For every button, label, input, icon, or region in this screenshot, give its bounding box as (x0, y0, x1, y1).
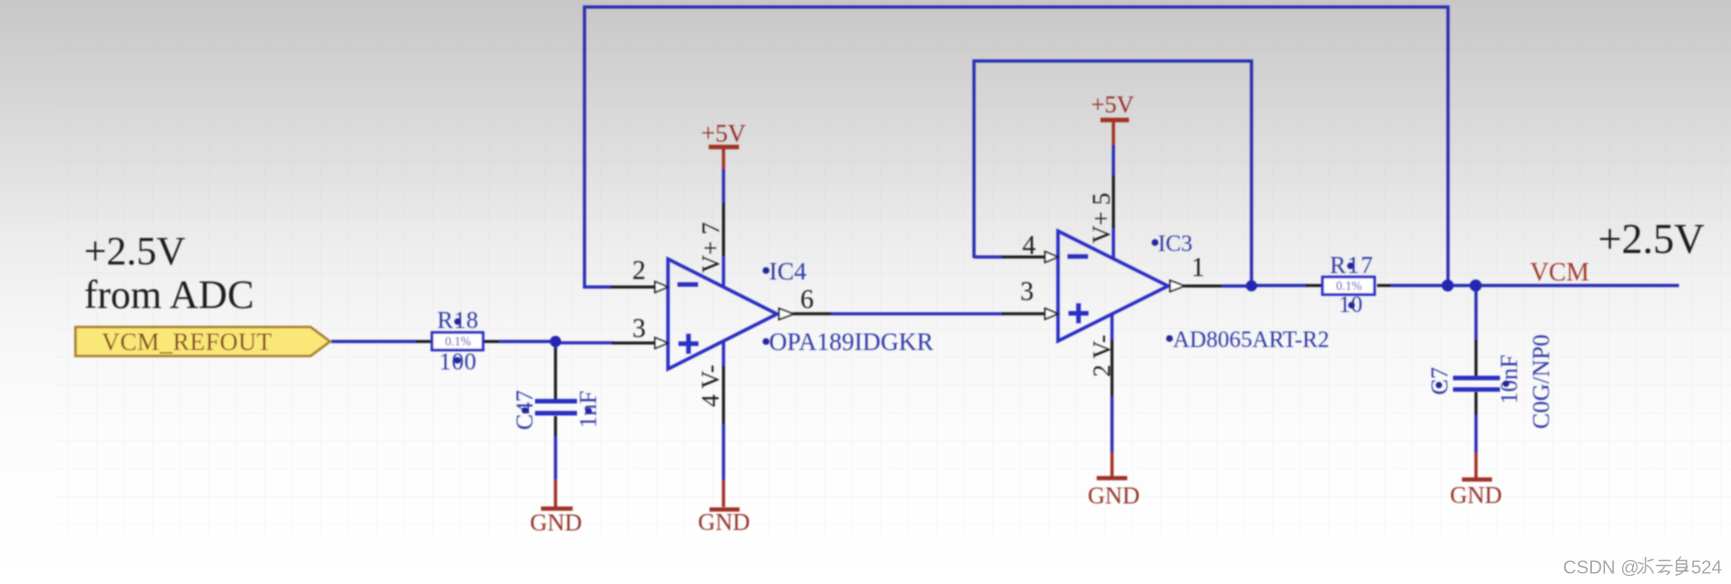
net label flag VCM_REFOUT (76, 327, 331, 356)
IC4 V- pin stem (722, 342, 725, 508)
wire C7 to GND (1474, 415, 1477, 454)
IC4 designator label (763, 267, 770, 274)
wire C47 to GND (554, 436, 557, 481)
IC3 pin 3 input arrow (1045, 308, 1058, 319)
svg-text:2: 2 (632, 255, 646, 285)
svg-text:0.1%: 0.1% (445, 335, 471, 349)
op-amp U1 IC4 triangle body (668, 259, 777, 369)
pin of C47 bottom (black) (554, 416, 557, 438)
svg-text:6: 6 (800, 284, 814, 314)
wire loop1 to IC4 pin 2 (583, 285, 613, 288)
IC4 plus input mark (679, 334, 699, 354)
svg-text:VCM: VCM (1530, 258, 1589, 287)
svg-text:1: 1 (1191, 252, 1205, 282)
IC3 pin 1 output arrow (1170, 281, 1185, 292)
junction D (C7 / VCM net) (1470, 280, 1482, 292)
IC3 designator label (1152, 239, 1159, 246)
svg-text:V+ 5: V+ 5 (1089, 193, 1116, 244)
IC3 plus input mark (1069, 303, 1089, 323)
svg-text:V+ 7: V+ 7 (698, 222, 725, 273)
+5V power port of IC3 (1091, 93, 1135, 121)
pin 3 of IC4 (black pin wire) (612, 342, 655, 345)
IC4 minus input mark (678, 282, 699, 287)
IC3 minus input mark (1068, 254, 1089, 259)
ground GND of C47 (530, 509, 582, 537)
pin of C47 top (black) (554, 348, 557, 399)
svg-text:+2.5V: +2.5V (1598, 217, 1705, 263)
+5V power port of IC4 (701, 121, 746, 148)
IC4 pin 2 input arrow (655, 282, 668, 293)
wire feedback loop IC4 output net to R17/junction (top outer loop) (585, 7, 1449, 288)
wire R17 to VCM output (net VCM) (1391, 284, 1679, 287)
pin 1 output of IC3 (black pin wire) (1184, 285, 1224, 288)
pin 4 of IC3 (black pin wire) (1002, 256, 1045, 259)
svg-text:IC3: IC3 (1158, 231, 1193, 256)
wire junction A down to C47 (554, 340, 557, 350)
wire R18 to junction A (499, 340, 557, 343)
svg-text:VCM_REFOUT: VCM_REFOUT (102, 329, 273, 356)
svg-text:4: 4 (1022, 230, 1036, 260)
svg-text:524: 524 (1691, 557, 1722, 578)
capacitor C7 plates (1453, 378, 1500, 390)
wire C7 GND stem (red) (1474, 453, 1477, 479)
wire R17 left pin stub (black) (1306, 284, 1322, 287)
svg-text:CSDN @: CSDN @ (1563, 557, 1639, 578)
svg-text:2 V-: 2 V- (1089, 335, 1116, 377)
svg-text:C0G/NP0: C0G/NP0 (1529, 334, 1555, 429)
watermark CSDN (1563, 557, 1722, 578)
svg-text:AD8065ART-R2: AD8065ART-R2 (1173, 327, 1329, 352)
ground GND of IC3 (1088, 478, 1140, 509)
svg-text:GND: GND (1450, 483, 1502, 509)
ground GND of IC4 (698, 510, 750, 537)
wire IC3 output to junction B (1222, 284, 1253, 287)
junction B (IC3 out / loop2) (1246, 280, 1257, 291)
wire junction A to IC4 pin 3 (556, 341, 614, 344)
IC3 V- pin stem (1110, 315, 1113, 478)
junction C (loop1 / VCM net) (1442, 280, 1454, 292)
wire R17 right pin stub (black) (1377, 284, 1393, 287)
pin of C7 bottom (black) (1475, 392, 1478, 417)
wire VCM_REFOUT flag to R18 left pin (331, 340, 418, 343)
svg-text:4 V-: 4 V- (698, 365, 725, 407)
resistor R18 body (432, 333, 483, 351)
wire loop2 to IC3 pin 4 (974, 255, 1004, 258)
resistor R17 body (1323, 277, 1375, 295)
svg-text:+5V: +5V (701, 121, 746, 148)
IC4 part number label OPA189IDGKR (763, 338, 770, 345)
svg-text:GND: GND (530, 511, 582, 537)
IC4 V+ pin stem: red/blue/black/blue from +5V bar to triangle (722, 147, 725, 287)
svg-text:GND: GND (698, 510, 750, 536)
IC3 pin 4 input arrow (1045, 252, 1058, 263)
svg-text:+2.5V: +2.5V (84, 229, 186, 274)
pin 6 output of IC4 (black pin wire) (793, 312, 833, 315)
capacitor C3 C47 plates (535, 401, 577, 413)
wire junction B to R17 (1250, 284, 1308, 287)
pin 3 of IC3 (black pin wire) (1002, 312, 1045, 315)
svg-text:GND: GND (1088, 484, 1140, 510)
IC3 part number label AD8065ART-R2 (1166, 335, 1173, 342)
svg-text:+5V: +5V (1091, 93, 1135, 119)
svg-text:C7: C7 (1428, 367, 1454, 395)
svg-text:10nF: 10nF (1497, 355, 1523, 404)
wire feedback loop IC3 output to pin 4 (inner loop) (974, 61, 1252, 286)
IC4 pin 6 output arrow (779, 309, 794, 320)
svg-text:from ADC: from ADC (84, 272, 254, 317)
svg-text:IC4: IC4 (769, 259, 807, 286)
junction A (R18 / C47 / IC4 pin3) (550, 336, 561, 347)
svg-text:3: 3 (1020, 276, 1034, 306)
wire C47 GND stem (red) (554, 480, 557, 508)
svg-text:0.1%: 0.1% (1336, 279, 1362, 293)
op-amp U2 IC3 triangle body (1058, 231, 1168, 341)
ground GND of C7 (1450, 480, 1502, 510)
wire R18 right pin stub (black) (484, 340, 500, 343)
pin 2 of IC4 (black pin wire) (611, 286, 655, 289)
wire R18 left pin stub (black) (416, 340, 432, 343)
IC4 pin 3 input arrow (655, 338, 668, 349)
wire junction D down to C7 (1474, 284, 1477, 342)
svg-text:OPA189IDGKR: OPA189IDGKR (769, 329, 934, 356)
IC3 V+ pin stem (1112, 121, 1115, 259)
pin of C7 top (black) (1475, 340, 1478, 376)
svg-text:3: 3 (632, 313, 646, 343)
wire IC4 output to IC3 pin 3 (831, 312, 1004, 315)
